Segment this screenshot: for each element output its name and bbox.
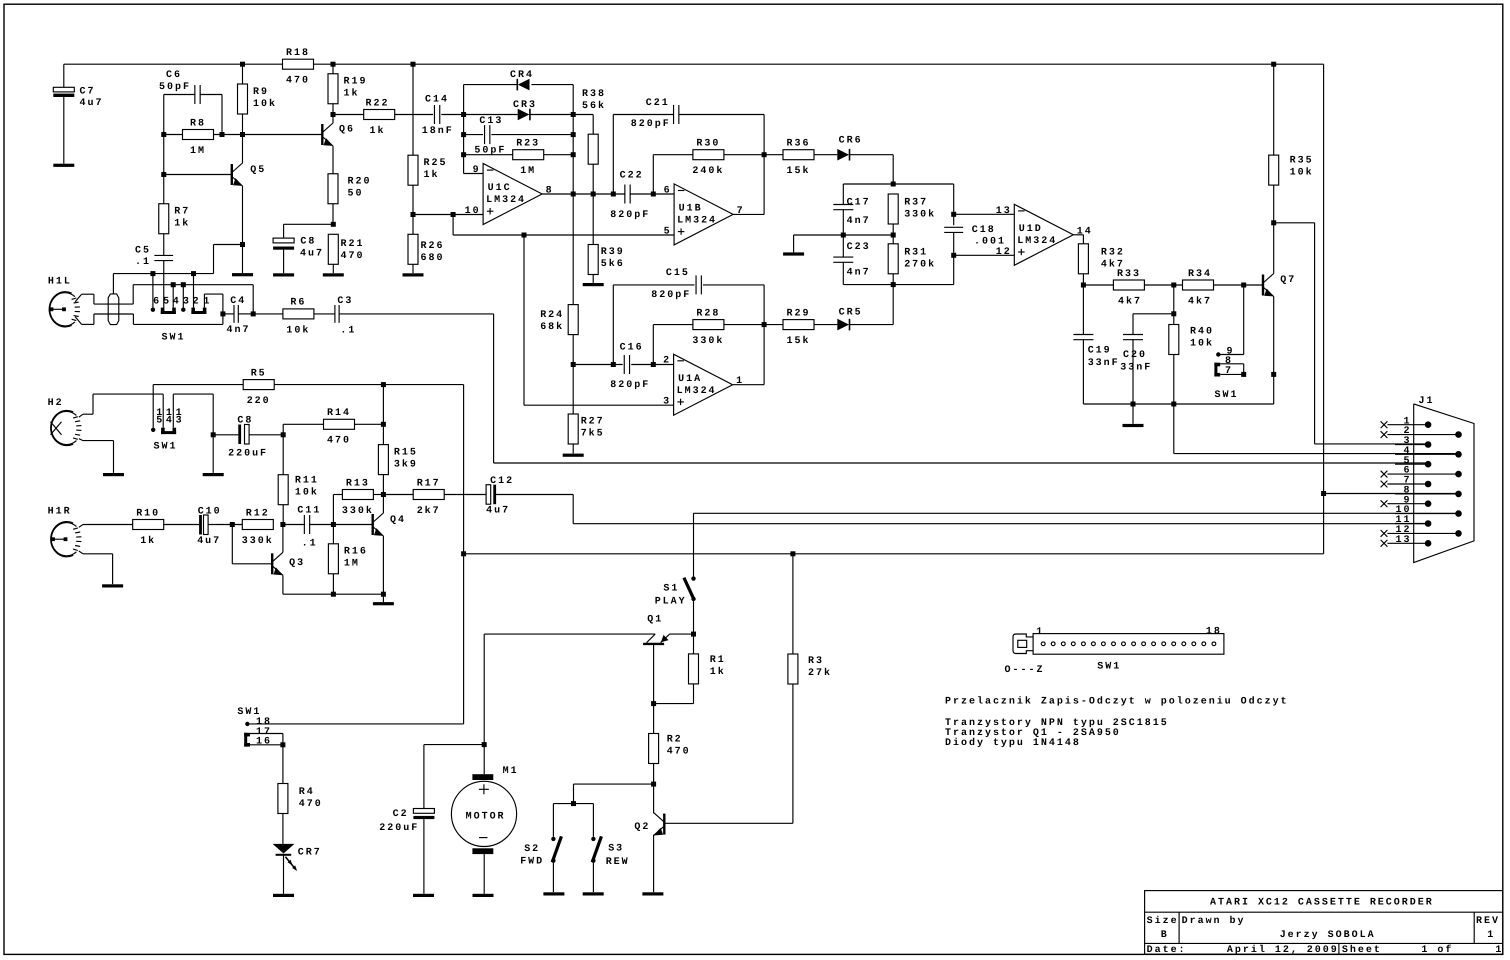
wire R40 node col xyxy=(1173,285,1175,325)
svg-text:R3: R3 xyxy=(808,656,824,667)
svg-text:1k: 1k xyxy=(710,666,726,678)
svg-text:820pF: 820pF xyxy=(631,119,671,130)
wire pin3 bus xyxy=(524,404,674,406)
node C16 left xyxy=(571,362,576,367)
capacitor C13 xyxy=(474,116,506,157)
wire R28 riser xyxy=(652,325,654,365)
svg-text:C13: C13 xyxy=(479,116,503,127)
svg-text:SW1: SW1 xyxy=(154,441,178,452)
svg-text:820pF: 820pF xyxy=(610,210,650,221)
node R16-rail xyxy=(331,592,336,597)
wire R40 bottom xyxy=(1173,355,1175,405)
wire Q5 emitter xyxy=(242,186,244,245)
svg-text:50: 50 xyxy=(348,188,364,199)
svg-text:R34: R34 xyxy=(1188,269,1212,280)
wire R34-Q7 xyxy=(1214,284,1263,286)
resistor R26 xyxy=(408,234,444,264)
diode CR6 xyxy=(837,135,862,160)
node midrail-C17 xyxy=(841,233,846,238)
node midrail-R37 xyxy=(891,233,896,238)
wire pin14 stem xyxy=(162,394,164,428)
wire S3 bottom xyxy=(592,863,594,892)
svg-text:7k5: 7k5 xyxy=(581,428,605,440)
svg-text:R10: R10 xyxy=(136,508,160,519)
wire rail right drop xyxy=(1323,64,1325,554)
svg-text:PLAY: PLAY xyxy=(655,596,687,607)
wire H1L fork top xyxy=(75,294,94,304)
capacitor C8 220uF xyxy=(228,416,268,460)
svg-text:1 of: 1 of xyxy=(1421,944,1453,956)
capacitor C15 xyxy=(651,268,701,301)
svg-text:1k: 1k xyxy=(424,169,440,181)
diode CR4 xyxy=(510,70,534,91)
wire C22-pin6 xyxy=(653,193,674,195)
svg-text:5: 5 xyxy=(664,226,672,237)
transistor Q1 xyxy=(484,615,693,644)
wire R15 top xyxy=(382,385,384,445)
wire H2 bottom lead xyxy=(79,439,114,473)
wire J1 pin10 bus xyxy=(694,512,1459,514)
wire C8 right xyxy=(249,434,283,436)
op-amp U1C xyxy=(465,164,554,225)
svg-text:LM324: LM324 xyxy=(486,195,526,206)
wire C18 top xyxy=(953,184,955,225)
svg-text:CR5: CR5 xyxy=(839,307,863,318)
J1 pin 3 xyxy=(1395,436,1431,448)
svg-text:CR4: CR4 xyxy=(510,70,534,81)
wire C15 row xyxy=(613,284,764,286)
head H1L xyxy=(48,276,80,327)
svg-text:10k: 10k xyxy=(286,324,310,336)
svg-text:2: 2 xyxy=(193,297,201,308)
wire Q3 collector xyxy=(282,525,284,553)
svg-text:C8: C8 xyxy=(237,416,253,427)
svg-text:3: 3 xyxy=(183,297,191,308)
resistor R16 xyxy=(328,544,367,574)
J1 pin 4 xyxy=(1395,446,1462,458)
svg-text:C14: C14 xyxy=(425,95,449,106)
svg-text:R26: R26 xyxy=(421,241,445,252)
wire S2S3 feed xyxy=(553,784,653,804)
capacitor C7 xyxy=(53,86,103,109)
svg-text:R33: R33 xyxy=(1117,269,1141,280)
svg-text:5: 5 xyxy=(163,297,171,308)
labels SW1 pins xyxy=(153,297,211,308)
wire C4-R6 xyxy=(253,313,283,315)
motor M1 xyxy=(451,745,518,855)
wire Q2 emitter xyxy=(653,835,655,893)
capacitor C4 xyxy=(227,296,251,336)
svg-text:SW1: SW1 xyxy=(1097,661,1121,672)
svg-text:68k: 68k xyxy=(540,321,564,333)
svg-text:12: 12 xyxy=(996,247,1012,258)
svg-text:470: 470 xyxy=(341,251,365,262)
svg-text:REV: REV xyxy=(1476,916,1500,927)
svg-text:R8: R8 xyxy=(190,118,206,129)
wire C6 right riser xyxy=(221,95,223,135)
wire C4 right xyxy=(238,313,253,315)
svg-text:6: 6 xyxy=(664,185,672,196)
wire R17-C12 xyxy=(444,494,486,496)
wire Q1C to motor xyxy=(483,634,485,745)
resistor R35 xyxy=(1269,155,1314,185)
capacitor C21 xyxy=(631,98,679,130)
resistor R32 xyxy=(1078,244,1124,274)
svg-text:7: 7 xyxy=(737,206,745,217)
node Q5 emitter xyxy=(240,242,245,247)
wire Q3 emitter xyxy=(282,575,284,594)
wire ref rail right xyxy=(794,234,894,236)
node bus235-524 xyxy=(522,233,527,238)
svg-text:27k: 27k xyxy=(808,667,832,679)
wire CR3 row xyxy=(464,114,574,116)
svg-text:S2: S2 xyxy=(524,844,540,855)
svg-text:R11: R11 xyxy=(295,475,319,486)
svg-text:C7: C7 xyxy=(80,86,96,97)
wire S1 bottom xyxy=(693,601,695,634)
transistor Q4 xyxy=(373,513,406,536)
wire R35 top xyxy=(1273,64,1275,155)
diode CR7 LED xyxy=(273,844,322,871)
resistor R5 xyxy=(243,368,274,407)
wire col573 mid xyxy=(572,115,574,305)
wire R16 top xyxy=(332,525,334,544)
wire pin10 bus xyxy=(413,214,483,216)
svg-text:1M: 1M xyxy=(344,559,360,570)
node C11-R13-R16 xyxy=(331,522,336,527)
connector SW1 18-pin xyxy=(1013,626,1224,672)
wire R4-CR7 xyxy=(282,814,284,844)
node R34-SW1 xyxy=(1241,283,1246,288)
wire CR5 out xyxy=(850,285,893,325)
svg-text:10k: 10k xyxy=(1190,337,1214,349)
resistor R31 xyxy=(888,244,936,274)
wire R39 gnd xyxy=(592,275,594,283)
svg-text:C5: C5 xyxy=(135,246,151,257)
resistor R7 xyxy=(159,204,190,234)
wire R14 left riser xyxy=(283,424,323,435)
svg-text:R40: R40 xyxy=(1190,326,1214,337)
note diody xyxy=(945,737,1081,749)
wire H1L bottom lead xyxy=(94,313,133,315)
transistor Q6 xyxy=(322,123,355,146)
J1 pin 10 xyxy=(1395,505,1462,517)
svg-text:R14: R14 xyxy=(327,408,351,419)
svg-text:3: 3 xyxy=(176,416,184,427)
node col463-bus554 xyxy=(461,551,466,556)
node pin10-riser xyxy=(451,212,456,217)
wire base bus Q6 xyxy=(243,134,323,136)
wire S2 bottom xyxy=(552,863,554,892)
node R7-Q5base xyxy=(161,172,166,177)
svg-text:LM324: LM324 xyxy=(1017,236,1057,247)
title block xyxy=(1145,891,1504,956)
wire R13 riser xyxy=(333,495,342,525)
J1 pin 6 (nc) xyxy=(1381,466,1462,478)
wire pin1 stem xyxy=(204,294,223,314)
ground R27 xyxy=(563,454,584,457)
resistor R18 xyxy=(283,48,314,87)
svg-text:3k9: 3k9 xyxy=(394,458,418,470)
svg-text:R15: R15 xyxy=(394,447,418,458)
svg-text:R19: R19 xyxy=(344,77,368,88)
svg-text:CR7: CR7 xyxy=(298,847,322,858)
wire U1D out xyxy=(1073,235,1083,244)
svg-text:470: 470 xyxy=(327,436,351,447)
svg-text:4u7: 4u7 xyxy=(80,98,104,109)
svg-text:.1: .1 xyxy=(135,257,151,268)
wire C2 gnd xyxy=(423,819,425,894)
resistor R20 xyxy=(328,174,371,204)
wire pin9 stub xyxy=(464,173,484,175)
node R5-R15 xyxy=(381,382,386,387)
capacitor C2 xyxy=(379,809,434,834)
node R14-R15 xyxy=(381,422,386,427)
svg-text:C22: C22 xyxy=(620,170,644,181)
node gndrail-R40 xyxy=(1171,402,1176,407)
svg-text:Diody typu 1N4148: Diody typu 1N4148 xyxy=(945,737,1081,749)
wire R17 left xyxy=(383,494,413,496)
svg-text:15k: 15k xyxy=(787,335,811,347)
svg-text:16: 16 xyxy=(256,736,272,747)
capacitor C19 xyxy=(1073,335,1119,369)
svg-text:C16: C16 xyxy=(620,342,644,353)
wire C7 bottom xyxy=(63,97,65,164)
note tranzystor q1 xyxy=(945,728,1121,739)
svg-text:470: 470 xyxy=(667,746,691,757)
wire R30 row xyxy=(653,154,764,156)
head H2 xyxy=(48,398,82,446)
svg-text:U1C: U1C xyxy=(488,183,512,194)
node R19-R22 xyxy=(331,112,336,117)
svg-text:R38: R38 xyxy=(582,89,606,100)
head H1R xyxy=(48,506,82,556)
capacitor C10 xyxy=(197,506,221,546)
wire C7 top xyxy=(63,64,65,87)
wire pin12 xyxy=(954,254,1015,256)
node R2-S2S3 xyxy=(651,782,656,787)
svg-text:220uF: 220uF xyxy=(228,448,268,459)
wire U1B out xyxy=(733,213,764,215)
node R12-Q3C xyxy=(280,522,285,527)
node rail-R19 xyxy=(331,62,336,67)
node R35-Q7C xyxy=(1271,220,1276,225)
node C8-R14 xyxy=(281,432,286,437)
wire CR4 row xyxy=(464,84,574,86)
node pin7-Q7E xyxy=(1241,372,1246,377)
wire C3 out xyxy=(339,314,494,463)
wire filter gnd rail xyxy=(1083,403,1273,405)
resistor R25 xyxy=(408,155,447,185)
node motor-C2 xyxy=(482,742,487,747)
ground pin13 xyxy=(203,473,224,476)
svg-text:1M: 1M xyxy=(190,146,206,157)
wire C4 left xyxy=(223,313,234,315)
svg-text:ATARI XC12 CASSETTE RECORDER: ATARI XC12 CASSETTE RECORDER xyxy=(1210,897,1434,908)
svg-text:R39: R39 xyxy=(601,247,625,258)
capacitor C23 xyxy=(833,242,870,278)
ground ref rail xyxy=(783,252,804,255)
svg-text:14: 14 xyxy=(1077,226,1093,237)
node pin13 tap xyxy=(951,212,956,217)
svg-text:4u7: 4u7 xyxy=(300,248,324,259)
J1 pin 2 (nc) xyxy=(1381,426,1462,438)
ground C8a xyxy=(273,273,294,276)
ground H2 xyxy=(103,473,124,476)
wire R5 right xyxy=(274,384,463,386)
node Q4E-rail xyxy=(381,592,386,597)
svg-text:2k7: 2k7 xyxy=(417,505,441,517)
wire pin13 path xyxy=(173,394,213,435)
capacitor C3 xyxy=(335,296,356,337)
switch S2 xyxy=(520,836,561,867)
svg-text:18nF: 18nF xyxy=(422,126,454,137)
node R40-C20 xyxy=(1171,311,1176,316)
svg-text:R17: R17 xyxy=(417,478,441,489)
svg-text:R30: R30 xyxy=(696,138,720,149)
label SW1 lower xyxy=(154,441,178,452)
node fb-R28 xyxy=(762,322,767,327)
node S2S3 split xyxy=(571,801,576,806)
node C16-C15riser xyxy=(611,362,616,367)
svg-text:R20: R20 xyxy=(348,176,372,187)
transistor Q2 xyxy=(634,813,664,836)
node gndrail-pin6 xyxy=(150,271,155,276)
svg-text:4u7: 4u7 xyxy=(197,536,221,547)
label SW1 bl xyxy=(237,707,261,718)
svg-text:1: 1 xyxy=(736,376,744,387)
svg-text:C11: C11 xyxy=(297,506,321,517)
svg-text:10k: 10k xyxy=(253,98,277,110)
resistor R30 xyxy=(692,138,724,177)
resistor R40 xyxy=(1169,325,1214,355)
wire R27 gnd xyxy=(572,444,574,453)
svg-text:820pF: 820pF xyxy=(651,290,691,301)
svg-text:R7: R7 xyxy=(174,207,190,218)
svg-text:C3: C3 xyxy=(337,296,353,307)
svg-text:R1: R1 xyxy=(710,655,726,666)
wire R27 top xyxy=(572,365,574,415)
capacitor C18 xyxy=(944,225,1006,248)
wire Q2 collector xyxy=(653,784,655,813)
wire C20 gnd riser xyxy=(1132,404,1134,424)
svg-text:R16: R16 xyxy=(344,547,368,558)
wire R25 top xyxy=(412,64,414,155)
svg-text:H2: H2 xyxy=(48,398,64,409)
svg-text:B: B xyxy=(1161,930,1169,941)
svg-text:H1R: H1R xyxy=(48,506,72,517)
svg-text:6: 6 xyxy=(153,297,161,308)
svg-text:50pF: 50pF xyxy=(159,82,191,93)
wire pin4 stem xyxy=(172,285,174,308)
wire pin17 xyxy=(250,733,283,735)
svg-text:Q5: Q5 xyxy=(250,165,266,176)
node R8 right xyxy=(220,132,225,137)
wire CR4 right riser xyxy=(572,85,574,115)
wire Q7 emitter xyxy=(1273,297,1275,375)
wire head rail upper xyxy=(133,285,253,314)
svg-text:C17: C17 xyxy=(847,197,871,208)
wire C20 stub xyxy=(1133,314,1174,335)
wire Q3 base path xyxy=(232,525,272,564)
resistor R13 xyxy=(342,478,374,517)
svg-text:C18: C18 xyxy=(972,225,996,236)
capacitor C17 xyxy=(833,197,870,227)
label SW1 right xyxy=(1215,390,1239,401)
node pin12 tap xyxy=(951,253,956,258)
svg-text:REW: REW xyxy=(606,857,630,868)
svg-text:1: 1 xyxy=(1036,627,1044,638)
wire R13 right xyxy=(373,494,383,496)
ground C2 xyxy=(413,894,434,897)
node out-col573 xyxy=(571,192,576,197)
resistor R24 xyxy=(540,305,578,335)
wire C6 row xyxy=(164,94,222,96)
switch SW1 pin9 xyxy=(1216,346,1234,357)
wire motor gnd xyxy=(483,854,485,894)
switch SW1 pin15 xyxy=(151,428,155,432)
svg-text:MOTOR: MOTOR xyxy=(466,811,506,822)
svg-text:C4: C4 xyxy=(230,296,246,307)
wire Q7 collector xyxy=(1273,223,1275,274)
svg-text:R6: R6 xyxy=(290,298,306,309)
label SW1 upper xyxy=(162,332,186,343)
node Q1B-R1 xyxy=(651,701,656,706)
svg-text:R28: R28 xyxy=(696,308,720,319)
node CR3-C13 col xyxy=(461,132,466,137)
J1 pin 8 xyxy=(1395,485,1462,497)
svg-text:H1L: H1L xyxy=(48,276,72,287)
wire Q4 emitter xyxy=(382,536,384,594)
wire R12-C11 xyxy=(283,524,305,526)
svg-text:R2: R2 xyxy=(667,734,683,745)
ground Q5 xyxy=(232,273,253,276)
switch S1 xyxy=(655,576,696,607)
ground CR7 xyxy=(273,894,294,897)
svg-text:Q6: Q6 xyxy=(339,125,355,136)
svg-text:4u7: 4u7 xyxy=(486,506,510,517)
wire H2 top lead xyxy=(79,394,163,417)
svg-text:M1: M1 xyxy=(503,766,519,777)
svg-text:Q3: Q3 xyxy=(289,558,305,569)
wire R21 gnd xyxy=(332,264,334,273)
wire C13 row xyxy=(464,134,574,136)
svg-text:C12: C12 xyxy=(490,476,514,487)
svg-text:13: 13 xyxy=(1396,535,1412,546)
wire pin18 bus xyxy=(250,723,464,725)
wire S3 top xyxy=(592,804,594,837)
J1 pin 13 (nc) xyxy=(1381,535,1432,547)
ground C7 xyxy=(53,164,74,167)
wire J1 pin4 bus xyxy=(1174,404,1459,454)
resistor R12 xyxy=(242,508,274,547)
wire C19 top xyxy=(1082,285,1084,335)
switch SW1 pin3 xyxy=(181,285,185,312)
wire bus554 xyxy=(464,553,1324,555)
svg-text:9: 9 xyxy=(473,165,481,176)
wire R2 bottom xyxy=(653,764,655,785)
wire R23 row xyxy=(464,154,574,156)
svg-text:2: 2 xyxy=(663,356,671,367)
svg-text:1k: 1k xyxy=(344,88,360,100)
node R32-R33 xyxy=(1081,283,1086,288)
ground R21 xyxy=(323,273,344,276)
svg-text:CR3: CR3 xyxy=(513,100,537,111)
svg-text:R21: R21 xyxy=(341,239,365,250)
node out-C21riser xyxy=(611,192,616,197)
svg-text:5k6: 5k6 xyxy=(601,258,625,270)
switch SW1 pin6 xyxy=(151,274,155,312)
